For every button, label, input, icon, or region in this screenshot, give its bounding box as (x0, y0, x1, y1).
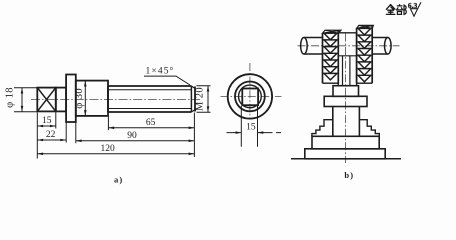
hanzi bu (part) (397, 5, 407, 15)
thread chamfer line (190, 86, 192, 112)
thread minor diameter lines (109, 90, 192, 109)
svg-text:22: 22 (46, 130, 56, 140)
dim phi18 extension lines (14, 88, 37, 112)
dim 90 arrows (76, 140, 195, 143)
end view dim 15 extension lines (241, 106, 257, 147)
dim phi18 line (21, 88, 23, 112)
end view horizontal centerline (221, 95, 282, 97)
dim 90 line (76, 140, 195, 142)
inner circle phi18 (239, 85, 262, 108)
extension line left (36, 113, 38, 159)
screw cross hole bottom (338, 55, 356, 57)
chamfer corner diagonals (191, 86, 195, 112)
svg-text:M 20: M 20 (195, 87, 206, 111)
b vertical centerline (345, 34, 347, 164)
left staircase (312, 120, 333, 137)
end view vertical centerline (249, 63, 251, 119)
right staircase (359, 120, 379, 137)
end view dim 15 line tails (227, 132, 282, 134)
outer circle flange (228, 74, 272, 118)
svg-text:15: 15 (246, 122, 256, 132)
extension line right end (193, 113, 195, 158)
svg-text:90: 90 (127, 131, 137, 141)
column (333, 107, 360, 137)
handle bar right segment (372, 38, 388, 55)
centerline shaft (31, 99, 200, 101)
end view dim 15 arrows (236, 131, 264, 134)
b bar centerline (298, 45, 400, 47)
dim 120 line (37, 153, 194, 155)
screw body between blocks (338, 33, 356, 86)
phi30 cylinder (76, 81, 108, 116)
dim 65 line (108, 127, 194, 129)
dim phi18 arrows (21, 88, 24, 112)
base upper slab (312, 136, 379, 149)
dim 22 arrows (37, 139, 66, 142)
dim 15 arrows (37, 125, 56, 128)
flange (66, 75, 76, 123)
dim M20 extension lines (197, 86, 211, 113)
svg-text:65: 65 (146, 118, 156, 128)
extension line flange left (65, 123, 67, 143)
ground line (291, 158, 401, 160)
dim phi30 arrows (84, 81, 87, 116)
leader 1x45 (144, 76, 190, 85)
svg-text:1×45°: 1×45° (146, 66, 175, 77)
svg-text:a): a) (114, 175, 123, 185)
extension line thread start (107, 117, 109, 131)
svg-text:15: 15 (42, 116, 52, 126)
middle circle (235, 82, 265, 112)
screw shank inner lines (343, 56, 350, 86)
square end section outline (37, 88, 56, 112)
svg-text:φ 18: φ 18 (5, 87, 16, 108)
handle bar left end cap (301, 37, 308, 54)
dim phi30 line (84, 81, 86, 116)
base lower slab (305, 149, 385, 159)
roughness symbol slash (418, 2, 421, 8)
extension line square right (55, 113, 57, 129)
square cross-section (242, 89, 258, 106)
svg-text:φ 30: φ 30 (74, 88, 85, 109)
thread end face (194, 87, 196, 112)
dim M20 arrows (207, 86, 210, 113)
neck section (56, 88, 66, 112)
svg-text:b): b) (344, 170, 354, 180)
dim 15 line (37, 125, 56, 127)
dim 120 arrows (37, 153, 194, 156)
hanzi quan (all) (386, 5, 395, 15)
roughness symbol triangle (410, 9, 417, 17)
extension line flange right (75, 123, 77, 144)
square end flats cross X (37, 88, 56, 112)
nut flange (324, 96, 367, 106)
handle bar left segment (304, 38, 323, 55)
dim M20 line (207, 86, 209, 113)
dim 22 line (37, 139, 66, 141)
handle bar right end cap (385, 37, 392, 54)
right thread block (357, 25, 374, 83)
thread section outline M20 (108, 86, 191, 112)
svg-text:120: 120 (100, 144, 115, 154)
dim 65 arrows (108, 127, 194, 130)
left thread block (323, 30, 342, 83)
collar under blocks (333, 86, 359, 97)
